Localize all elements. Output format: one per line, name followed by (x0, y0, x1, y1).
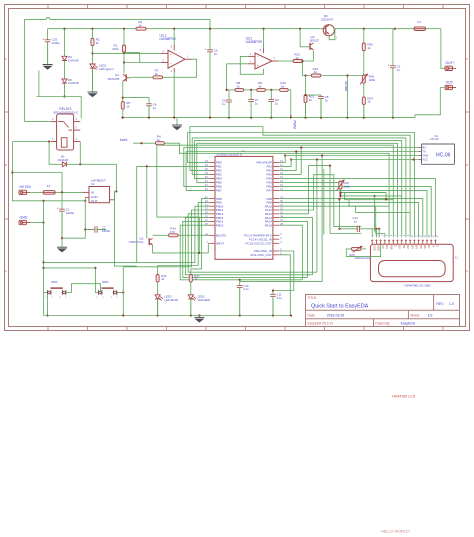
wire lcont to R4 (133, 142, 155, 144)
svg-text:1u: 1u (222, 102, 226, 106)
wire Q1 emitter to R5 (122, 81, 124, 101)
capacitor C11 0.1u (272, 291, 274, 295)
svg-text:1k: 1k (96, 41, 100, 45)
relay pin 3 (74, 121, 81, 123)
capacitor C15 1000u (45, 39, 51, 41)
wire U3.2 feedback (240, 56, 263, 74)
U2 left pins PB8-PB15 (209, 198, 215, 200)
wire PA2 to TX line (279, 152, 296, 171)
wire mesh filler4 (345, 193, 394, 200)
capacitor C12 1u (356, 226, 358, 232)
svg-text:IN: IN (91, 190, 94, 194)
wire +20V outer loop (25, 20, 46, 122)
wire PA9 to LCD pin12 (279, 202, 418, 237)
transistor Q6 2SD1047 (323, 25, 334, 36)
svg-text:D7: D7 (427, 245, 431, 249)
svg-text:UCond: UCond (344, 81, 348, 91)
wire R20 right stub (361, 248, 366, 250)
wire to U3.1 -input (124, 62, 161, 64)
svg-text:RW: RW (389, 245, 393, 250)
resistor R9 1k (257, 88, 266, 91)
wire PA3 to RX line (279, 148, 301, 175)
svg-text:LED-RED: LED-RED (198, 298, 210, 302)
connector OUT- (445, 85, 453, 89)
svg-text:Sheet:: Sheet: (410, 314, 420, 318)
wire R7 to Q1 base (129, 76, 153, 78)
capacitor C1 2200u (61, 192, 63, 209)
svg-text:TITLE:: TITLE: (308, 296, 318, 300)
svg-text:Drawn By:: Drawn By: (375, 321, 390, 325)
svg-text:NRST: NRST (216, 242, 224, 246)
svg-text:1k: 1k (126, 104, 130, 108)
wire C12 left riser (338, 199, 340, 228)
svg-text:IN+20V: IN+20V (20, 185, 32, 189)
diode D1 1N4148 (62, 162, 66, 167)
net flag below R26 (339, 189, 341, 192)
svg-text:100k: 100k (343, 184, 350, 188)
wire GND to riser (30, 222, 44, 224)
svg-text:SPD-05VDC0SL-C: SPD-05VDC0SL-C (53, 111, 79, 115)
svg-text:OUT-: OUT- (446, 80, 454, 84)
wire PA8 to LCD pin13 (279, 199, 423, 238)
wire U3.2 V+ to rail (263, 29, 265, 48)
wire BOOT0 to R14 (178, 234, 209, 236)
wire R22 to Q4 emitter (303, 51, 314, 62)
relay pin 5 (74, 129, 81, 131)
wire left riser (12, 142, 85, 201)
wire mesh filler3 (340, 195, 403, 197)
resistor R24 1k (362, 97, 365, 105)
resistor R19 1k (311, 74, 321, 77)
wire bus line3 PB3-LCD (192, 138, 406, 238)
wire PA14 link (279, 221, 307, 277)
svg-text:1N4148: 1N4148 (58, 158, 69, 162)
wire relay pin2 to left (25, 121, 51, 123)
wire left vertical (43, 201, 45, 316)
svg-text:1u: 1u (255, 101, 259, 105)
wire to F1 (30, 191, 43, 193)
resistor R8 1k (235, 88, 244, 91)
wire mesh filler6 (356, 206, 410, 212)
U1 GND pin (85, 197, 89, 199)
wire PB10 branch down (44, 206, 209, 262)
wire 5V riser (80, 164, 116, 191)
wire F1 to U1 (55, 191, 82, 193)
ground on GND rail (176, 118, 178, 125)
wire relay pin3 riser (80, 97, 82, 119)
svg-text:D2: D2 (406, 245, 410, 249)
resistor R3 1k (136, 27, 146, 30)
capacitor C8 1u (320, 95, 322, 96)
wire SW2 right (118, 292, 124, 294)
svg-text:SW2: SW2 (102, 280, 109, 284)
svg-text:PB15: PB15 (216, 223, 224, 227)
relay pin 2 (51, 121, 57, 123)
svg-text:C: C (466, 57, 468, 61)
svg-text:C: C (5, 57, 7, 61)
svg-text:HC-06: HC-06 (430, 137, 439, 141)
wire R20 to V0 loop (346, 244, 380, 256)
net flag PWM right (290, 116, 292, 119)
resistor R1 470k (123, 29, 125, 45)
wire left tap to C1 node (12, 173, 62, 193)
wire F2 to OUT+ (441, 29, 445, 69)
wire Q2 emitter (153, 245, 209, 253)
wire PA6 to LCD pin15 (279, 186, 431, 237)
svg-text:1N4148: 1N4148 (68, 81, 79, 85)
wire R4 right (164, 143, 179, 154)
svg-text:D1: D1 (402, 245, 406, 249)
svg-text:A: A (431, 245, 435, 247)
U4 pin VCC (418, 159, 421, 161)
wire PB12 branch down (188, 214, 317, 272)
U1 IN pin (82, 191, 89, 193)
wire R2-LED1 (92, 46, 94, 64)
wire R21 column (305, 76, 307, 96)
wire HC06 VCC (291, 159, 418, 161)
wire C9 column (392, 29, 394, 66)
svg-text:A: A (466, 269, 468, 273)
resistor R2 1k (92, 29, 94, 39)
svg-text:−: − (170, 62, 172, 66)
svg-text:1k: 1k (157, 138, 161, 142)
svg-text:+: + (205, 47, 207, 51)
U2 left pins PB0-PB7 (209, 161, 215, 163)
svg-text:OUT: OUT (91, 199, 98, 203)
U4 pin RX (418, 147, 421, 149)
wire H 267.9 (44, 267, 96, 269)
wire NRST (207, 242, 209, 244)
transistor Q4 BC637 (309, 43, 311, 50)
wire +20V rail (48, 28, 136, 30)
svg-text:1/2: 1/2 (428, 314, 433, 318)
bottom rail (44, 315, 292, 317)
wire SW1 left (44, 292, 47, 294)
U3.2 pin 8 stub (263, 48, 265, 53)
wire relay top rail (37, 96, 82, 98)
wire R25 to R26 (363, 51, 365, 76)
wire rail divider to Q4 base (300, 29, 310, 47)
title block (306, 295, 460, 327)
module U4 HC-06 (422, 144, 455, 164)
svg-text:C945 Tube: C945 Tube (129, 240, 144, 244)
relay pin 4 (74, 141, 81, 143)
svg-text:1k: 1k (138, 23, 142, 27)
U3.1 pin 3 stub (161, 52, 168, 54)
transistor Q1 BC547B (125, 74, 127, 81)
U4 pin GND (418, 155, 421, 157)
svg-text:+: + (170, 53, 172, 57)
U3.1 pin 8 stub (173, 44, 175, 50)
svg-text:1u: 1u (153, 106, 157, 110)
capacitor C2 2200u (94, 226, 96, 232)
svg-text:LED-BLUE: LED-BLUE (164, 298, 178, 302)
wire Q6 emitter loop (329, 29, 335, 40)
wire C12 row (339, 228, 357, 230)
svg-text:+: + (42, 37, 44, 41)
svg-text:0.1u: 0.1u (243, 287, 249, 291)
resistor R17 1k (190, 269, 192, 275)
LCD module HD44780LCD-1602 (370, 244, 453, 281)
svg-text:LED-green: LED-green (99, 67, 114, 71)
svg-text:VSS: VSS (372, 245, 376, 250)
svg-text:1u: 1u (397, 68, 401, 72)
wire bus line5 PB5-LCD (197, 143, 398, 237)
microcontroller U2 STM32F103C8T6 (215, 156, 273, 259)
wire bundle mid V (157, 145, 200, 253)
voltage regulator U1 LM7805CT (89, 187, 110, 203)
svg-text:D5: D5 (419, 245, 423, 249)
svg-text:D3: D3 (410, 245, 414, 249)
connector GND (19, 220, 27, 224)
wire PA13 link (279, 218, 312, 275)
svg-text:1k: 1k (281, 85, 285, 89)
wire PB9 branch down (158, 202, 209, 265)
wire PB8 branch down (191, 199, 209, 269)
fuse F1 (43, 191, 55, 195)
wire SW1 pin2 down (47, 295, 49, 316)
svg-text:PA15: PA15 (265, 223, 272, 227)
svg-text:D4: D4 (415, 245, 419, 249)
relay pin 1 (51, 141, 57, 143)
capacitor C3 1u (270, 90, 272, 99)
LED LED3 LED-BLUE (157, 282, 159, 295)
wire SW1 right to SW2 (67, 284, 101, 293)
svg-text:1000u: 1000u (52, 41, 61, 45)
wire R8-R9 (244, 89, 257, 91)
wire R26 pot top (339, 181, 341, 183)
ground at bottom rail (198, 316, 200, 318)
svg-text:B: B (5, 163, 7, 167)
U3.1 output pin 1 (185, 58, 193, 60)
wire C12 right riser (378, 229, 380, 238)
wire PB13 branch down (185, 218, 312, 275)
wire R10 to PWM net (288, 89, 291, 91)
U3.1 pin 2 stub (161, 62, 168, 64)
wire PA1 to VCC line (279, 160, 291, 167)
svg-text:+: + (57, 207, 59, 211)
svg-text:1u: 1u (275, 101, 279, 105)
wire PA0 to GND line (279, 156, 285, 163)
svg-text:HD44780LCD-1602: HD44780LCD-1602 (405, 283, 432, 287)
svg-text:PB7: PB7 (216, 189, 222, 193)
LCD pins 1-16 (371, 239, 373, 244)
svg-text:EasyEDA V5.3.14: EasyEDA V5.3.14 (308, 321, 334, 325)
wire R9-R10 (265, 89, 279, 91)
wire SW2 right down (122, 267, 124, 316)
LED LED2 LED-RED (190, 282, 192, 295)
svg-text:1k: 1k (309, 98, 313, 102)
svg-text:1N4148: 1N4148 (68, 58, 79, 62)
svg-text:REV: REV (436, 302, 444, 306)
svg-text:1u: 1u (354, 219, 358, 223)
svg-text:D0: D0 (398, 245, 402, 249)
svg-text:+: + (388, 63, 390, 67)
svg-text:D6: D6 (423, 245, 427, 249)
svg-text:SW1: SW1 (51, 280, 58, 284)
U1 OUT pin (110, 199, 115, 201)
wire PB11 branch down (123, 210, 208, 267)
connector OUT+ (445, 66, 453, 70)
wire Q2 base (153, 234, 169, 236)
svg-text:F2: F2 (417, 20, 421, 24)
resistor R21 1k (304, 95, 307, 103)
wire U3.2 +input (227, 63, 248, 65)
svg-text:1k: 1k (295, 56, 299, 60)
svg-text:OUT+: OUT+ (446, 61, 455, 65)
ground below C15 (43, 64, 53, 66)
wire PA12 mesh (279, 166, 361, 234)
wire HC06 GND (285, 155, 418, 157)
wire PB14 branch down (183, 221, 308, 277)
U2 pin BOOT0 (209, 234, 215, 236)
svg-text:BOOT0: BOOT0 (216, 234, 227, 238)
capacitor C4 1u (146, 103, 152, 105)
sheet border frame (5, 5, 470, 331)
svg-text:1k: 1k (155, 72, 159, 76)
wire PA4 to LCD pin16 (279, 178, 435, 237)
svg-text:1u: 1u (214, 52, 218, 56)
svg-text:E: E (393, 245, 397, 247)
wire C5 to GND rail (209, 52, 211, 118)
wire mesh 192 row (340, 192, 386, 194)
wire Q1 emitter tap to C4 (123, 97, 149, 99)
svg-text:1u: 1u (325, 98, 329, 102)
capacitor C5 1u (207, 49, 213, 51)
svg-text:PD1-OSC_OUT: PD1-OSC_OUT (251, 253, 273, 257)
svg-text:BC637: BC637 (310, 39, 320, 43)
wire bus line8 to LCD pin6 (157, 145, 393, 237)
analog GND rail (121, 117, 415, 119)
U3.2 pin 3 stub (248, 63, 255, 65)
junction dots on +20V rail (63, 28, 65, 30)
svg-text:PA7: PA7 (266, 189, 272, 193)
wire PA7 to LCD pin14 (279, 190, 427, 237)
svg-text:HELLO WORLD!: HELLO WORLD! (381, 530, 410, 534)
svg-text:470: 470 (170, 230, 175, 234)
svg-text:B: B (466, 163, 468, 167)
capacitor C10 0.1u (239, 280, 241, 285)
svg-text:HD44780 LCD: HD44780 LCD (392, 395, 416, 399)
wire GND riser (240, 156, 322, 282)
svg-text:K: K (436, 245, 440, 247)
U2 right pins PA8-PA15 (273, 198, 279, 200)
svg-text:470k: 470k (112, 47, 119, 51)
wire D1 to pin4 (67, 142, 81, 165)
rheostat R20 10k contrast (351, 247, 361, 250)
svg-text:LM358PSR: LM358PSR (246, 40, 263, 44)
ground below LED1 (88, 91, 98, 93)
svg-text:VCC: VCC (422, 158, 428, 162)
wire mesh filler2 (374, 196, 376, 232)
svg-text:PC15-OSC32_OUT: PC15-OSC32_OUT (246, 242, 273, 246)
LED LED1 LED-green (90, 64, 95, 68)
svg-text:Date:: Date: (308, 314, 316, 318)
resistor R5 1k (121, 102, 124, 110)
svg-text:GND: GND (20, 215, 28, 219)
wire U3.2 out to R22 (278, 60, 293, 62)
capacitor C7 1u (250, 90, 252, 99)
wire R26 to R24 (363, 83, 365, 97)
wire D6 column (64, 29, 66, 57)
wire filter input (227, 89, 235, 91)
wire PA10 to LCD pin4 (279, 206, 385, 237)
wire PA15 link (279, 225, 302, 280)
U4 pin TX (418, 151, 421, 153)
wire VSS riser (371, 229, 373, 238)
wire bus PB1 to Q2 (137, 166, 209, 262)
svg-text:BC547B: BC547B (108, 77, 119, 81)
resistor R22 1k (293, 60, 303, 63)
op-amp U3.2 LM358PSR (255, 53, 272, 69)
op-amp U3.1 LM358PSR (168, 50, 185, 68)
U3.1 pin 4 stub (173, 68, 175, 73)
svg-text:1k: 1k (236, 85, 240, 89)
svg-text:X1: X1 (455, 255, 459, 259)
svg-text:1k: 1k (258, 85, 262, 89)
svg-text:PWM: PWM (292, 121, 296, 129)
wire U1 GND down (84, 198, 86, 239)
wire PA5 to contrast pot (279, 181, 340, 183)
wire C15 stub (47, 29, 49, 40)
svg-text:A: A (5, 269, 7, 273)
wire U3.1 V- down (173, 73, 175, 119)
diode D5 1N4148 (62, 79, 67, 83)
wire R5 to rail (122, 109, 124, 118)
rheostat R26 100k (mesh) (339, 181, 342, 189)
capacitor C6 1u (227, 89, 229, 91)
resistor R10 1k (280, 88, 289, 91)
fuse F2 (414, 27, 426, 31)
wire bus line1 PB0-LCD (188, 133, 415, 238)
relay RELAY3 SPD-05VDC0SL-C (57, 114, 74, 150)
wire Q2 collector stub (146, 236, 148, 238)
diode D6 1N4148 (62, 56, 67, 60)
wire R22 node to R19 (302, 61, 311, 76)
wire Q1 base (126, 77, 129, 79)
svg-text:−: − (257, 55, 259, 59)
wire PD1 link (279, 255, 290, 316)
resistor R16 1k (157, 266, 159, 275)
resistor R25 1k (362, 43, 365, 51)
resistor R7 1k (153, 76, 163, 79)
wire mesh filler1 (323, 169, 325, 234)
svg-text:RS: RS (385, 245, 389, 249)
wire U3.1 V+ to rail (173, 29, 175, 45)
svg-text:1k: 1k (314, 70, 318, 74)
ground below C1 (61, 238, 63, 247)
transistor Q2 C945 Tube (148, 238, 150, 245)
wire D1 riser (49, 142, 62, 165)
wire bus line9 to LCD pin5 (180, 153, 390, 237)
U2 pins PD0 PD1 (273, 250, 279, 252)
svg-text:+: + (257, 64, 259, 68)
wire Q2 collector riser (146, 166, 148, 236)
wire mesh filler5 (349, 200, 389, 207)
U2 right pins PA0-PA7 (273, 161, 279, 163)
wire mesh 199 riser (385, 193, 387, 200)
wire U3.2 +input column (226, 64, 228, 90)
svg-text:2018-03-29: 2018-03-29 (327, 314, 344, 318)
resistor R14 470 (168, 234, 178, 237)
junction dots GND rail (122, 117, 124, 119)
svg-text:1k: 1k (367, 100, 371, 104)
wire to U3.1 +input (93, 52, 161, 54)
wire VCC riser (316, 160, 318, 273)
svg-text:2SD1047: 2SD1047 (321, 17, 334, 21)
svg-text:100k: 100k (369, 78, 376, 82)
wire U3.1 feedback (163, 59, 197, 77)
